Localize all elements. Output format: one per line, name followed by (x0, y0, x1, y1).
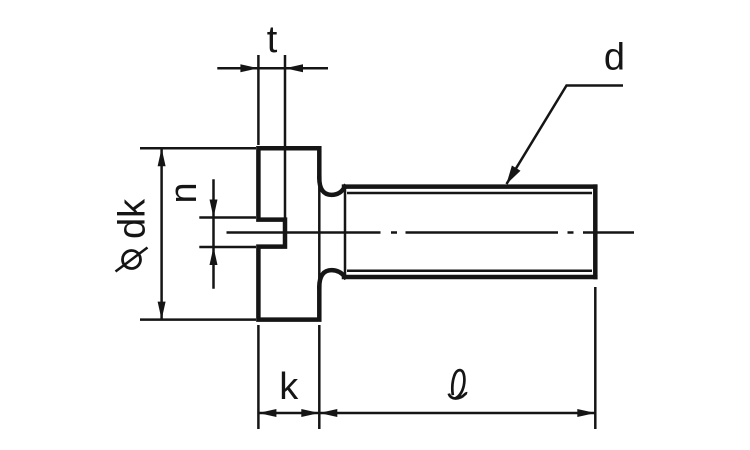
diameter symbol slash (116, 248, 148, 272)
screw head outline with slot notch (258, 148, 319, 319)
svg-text:n: n (163, 182, 205, 203)
svg-text:k: k (279, 366, 299, 408)
svg-text:t: t (267, 19, 278, 61)
l arrowhead right (577, 409, 595, 417)
shank bottom edge (344, 275, 595, 280)
t dimension line (217, 67, 328, 70)
centerline dot 2 (568, 231, 574, 234)
t extension line left (257, 55, 260, 145)
phi-dk extension line bottom (140, 318, 256, 321)
t arrowhead left (240, 64, 258, 72)
k arrowhead left (258, 409, 276, 417)
thread crest line top (347, 192, 592, 195)
n arrowhead bottom (210, 247, 218, 265)
d leader arrowhead (506, 166, 520, 185)
n dimension line (212, 179, 215, 288)
label script ell (449, 370, 467, 398)
centerline dash 1 (227, 231, 381, 234)
thread crest line bottom (347, 270, 592, 273)
centerline dash 2 (406, 231, 559, 234)
shank right end edge (593, 187, 598, 277)
neck fillet bottom (319, 270, 345, 287)
centerline dash 3 (583, 231, 634, 234)
n extension line top (199, 216, 256, 219)
l arrowhead left (319, 409, 337, 417)
head-shank junction line (318, 180, 321, 286)
n arrowhead top (210, 200, 218, 218)
k extension line left (257, 325, 260, 429)
phi-dk dimension line (160, 148, 163, 319)
t extension line right (slot depth) (284, 55, 287, 218)
k arrowhead right (301, 409, 319, 417)
neck fillet top (319, 178, 345, 195)
phi-dk arrowhead bottom (158, 302, 166, 320)
k extension line right (318, 325, 321, 429)
centerline dot 1 (391, 231, 397, 234)
l dimension line (319, 412, 595, 415)
d leader line (507, 86, 624, 185)
svg-text:d: d (604, 37, 625, 79)
diameter symbol circle (123, 251, 141, 269)
phi-dk extension line top (140, 147, 256, 150)
k dimension line (258, 412, 319, 415)
phi-dk arrowhead top (158, 148, 166, 166)
svg-text:dk: dk (112, 198, 154, 239)
n extension line bottom (199, 246, 256, 249)
shoulder line (344, 187, 347, 277)
shank top edge (344, 184, 595, 189)
l extension line right (594, 287, 597, 429)
t arrowhead right (285, 64, 303, 72)
